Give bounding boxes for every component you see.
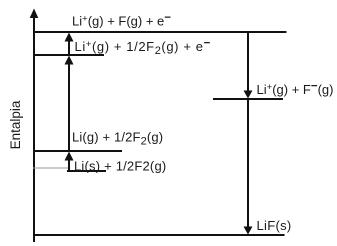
down arrow E (lattice energy, y99->y235) [247, 99, 249, 228]
y-axis arrowhead [30, 9, 39, 19]
level Li+(g)+F-(g) [213, 98, 283, 100]
x-axis (LiF(s) level) [33, 234, 285, 236]
level Li(s)+1/2F2(g) grey part [33, 167, 68, 169]
up arrow B (ionization, y151->y55) [68, 63, 70, 151]
svg-text:Li(s) + 1/2F2(g): Li(s) + 1/2F2(g) [74, 159, 166, 174]
svg-text:Entalpia: Entalpia [8, 100, 23, 149]
level Li+(g)+1/2F2(g)+e- [33, 54, 104, 56]
up arrow C (sublimation, y171->y151) [68, 159, 70, 171]
down arrow D (electron affinity, y32->y99) [247, 32, 249, 92]
svg-text:LiF(s): LiF(s) [257, 218, 292, 233]
y-axis [33, 16, 35, 242]
level Li(s)+1/2F2(g) dark part [67, 170, 106, 172]
level Li(g)+1/2F2(g) [33, 150, 122, 152]
level Li+(g)+F(g)+e- [33, 31, 287, 33]
up arrow A (dissociation, y55->y32) [68, 40, 70, 55]
svg-text:Li+(g) + F(g) + e−: Li+(g) + F(g) + e− [72, 12, 171, 29]
